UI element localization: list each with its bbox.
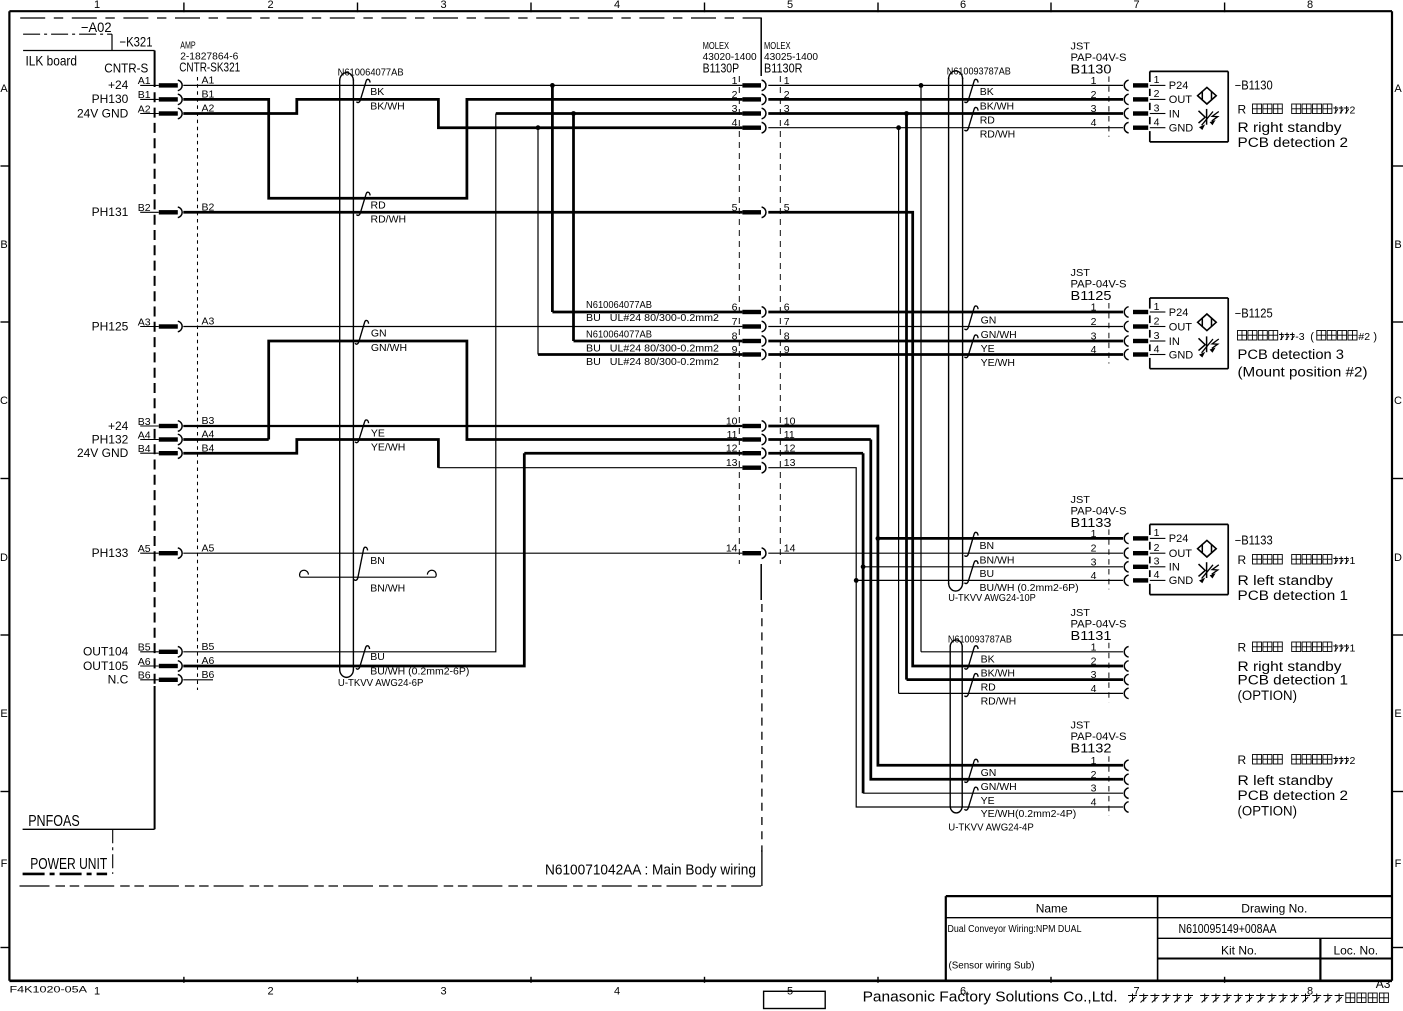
svg-text:24V GND: 24V GND — [77, 106, 129, 120]
svg-text:#2: #2 — [1358, 331, 1370, 343]
svg-text:A1: A1 — [138, 75, 151, 87]
svg-text:IN: IN — [1169, 562, 1180, 574]
svg-text:PCB detection 1: PCB detection 1 — [1238, 588, 1349, 603]
svg-text:7: 7 — [1133, 0, 1139, 11]
svg-text:OUT105: OUT105 — [83, 659, 129, 673]
svg-text:2: 2 — [1350, 755, 1356, 767]
svg-text:RD: RD — [980, 114, 996, 126]
svg-text:OUT: OUT — [1169, 321, 1193, 333]
svg-text:2: 2 — [1154, 88, 1160, 100]
svg-text:A4: A4 — [138, 429, 151, 441]
svg-text:GND: GND — [1169, 349, 1194, 361]
svg-text:3: 3 — [440, 0, 446, 11]
svg-text:PCB detection 2: PCB detection 2 — [1238, 788, 1349, 803]
svg-text:YE/WH: YE/WH — [981, 357, 1015, 369]
svg-text:B2: B2 — [138, 202, 151, 214]
svg-text:JST: JST — [1071, 607, 1091, 619]
svg-text:OUT104: OUT104 — [83, 645, 129, 659]
svg-text:JST: JST — [1071, 494, 1091, 506]
svg-text:JST: JST — [1071, 41, 1091, 53]
svg-text:F: F — [1395, 858, 1402, 870]
svg-text:B1: B1 — [138, 89, 151, 101]
svg-text:PNFOAS: PNFOAS — [28, 813, 79, 830]
svg-text:N610071042AA : Main Body wirin: N610071042AA : Main Body wiring — [545, 863, 756, 879]
svg-text:R left standby: R left standby — [1238, 773, 1334, 788]
svg-text:PCB detection 1: PCB detection 1 — [1238, 673, 1349, 688]
svg-text:C: C — [1394, 395, 1402, 407]
svg-text:−A02: −A02 — [81, 20, 112, 35]
svg-text:B1130P: B1130P — [703, 62, 740, 76]
svg-text:N610095149+008AA: N610095149+008AA — [1179, 922, 1278, 936]
svg-text:Name: Name — [1036, 902, 1068, 916]
svg-text:Drawing No.: Drawing No. — [1241, 902, 1307, 916]
svg-text:D: D — [0, 552, 8, 564]
svg-text:GN/WH: GN/WH — [371, 342, 407, 354]
svg-text:POWER UNIT: POWER UNIT — [30, 856, 107, 873]
svg-text:BU/WH (0.2mm2-6P): BU/WH (0.2mm2-6P) — [370, 665, 469, 677]
svg-text:(: ( — [1310, 331, 1314, 343]
svg-text:N610093787AB: N610093787AB — [947, 66, 1011, 78]
svg-text:A2: A2 — [138, 103, 151, 115]
svg-text:RD: RD — [371, 199, 387, 211]
svg-text:BK/WH: BK/WH — [370, 100, 404, 112]
svg-text:A: A — [0, 83, 8, 95]
svg-text:1: 1 — [1350, 555, 1356, 567]
svg-text:B: B — [1394, 239, 1401, 251]
svg-text:R: R — [1238, 103, 1247, 117]
svg-text:A5: A5 — [138, 543, 151, 555]
svg-text:Panasonic Factory Solutions Co: Panasonic Factory Solutions Co.,Ltd. — [863, 990, 1118, 1006]
svg-text:IN: IN — [1169, 108, 1180, 120]
svg-text:BN: BN — [980, 540, 995, 552]
svg-text:PH130: PH130 — [92, 92, 129, 106]
svg-text:2: 2 — [1154, 542, 1160, 554]
svg-text:B6: B6 — [138, 670, 151, 682]
svg-text:(OPTION): (OPTION) — [1238, 804, 1298, 819]
svg-text:R: R — [1238, 753, 1247, 767]
svg-text:BK: BK — [370, 86, 384, 98]
svg-text:2: 2 — [267, 986, 273, 998]
svg-text:OUT: OUT — [1169, 94, 1193, 106]
svg-text:YE: YE — [371, 427, 385, 439]
svg-text:1: 1 — [1154, 74, 1160, 86]
svg-text:B1130R: B1130R — [764, 62, 803, 76]
svg-text:YE: YE — [981, 343, 995, 355]
svg-text:RD/WH: RD/WH — [980, 129, 1016, 141]
svg-text:JST: JST — [1071, 267, 1091, 279]
svg-text:-3: -3 — [1295, 331, 1304, 343]
svg-text:A1: A1 — [202, 75, 215, 87]
svg-text:PCB detection 2: PCB detection 2 — [1238, 135, 1349, 150]
svg-text:Kit No.: Kit No. — [1221, 944, 1257, 958]
svg-text:): ) — [1373, 331, 1377, 343]
svg-text:ILK board: ILK board — [26, 53, 78, 69]
svg-text:2: 2 — [267, 0, 273, 11]
svg-text:(Mount position #2): (Mount position #2) — [1238, 365, 1368, 380]
svg-text:N610064077AB: N610064077AB — [586, 328, 652, 340]
svg-text:D: D — [1394, 552, 1402, 564]
svg-text:B4: B4 — [138, 443, 151, 455]
svg-text:BN/WH: BN/WH — [370, 583, 405, 595]
svg-text:U-TKVV AWG24-10P: U-TKVV AWG24-10P — [948, 592, 1036, 604]
svg-text:A3: A3 — [1376, 977, 1391, 991]
svg-text:A3: A3 — [138, 316, 151, 328]
svg-text:1: 1 — [94, 986, 100, 998]
svg-text:1: 1 — [1154, 301, 1160, 313]
svg-text:GN: GN — [981, 315, 997, 327]
svg-text:E: E — [1394, 708, 1401, 720]
svg-text:B: B — [0, 239, 7, 251]
svg-text:R left standby: R left standby — [1238, 573, 1334, 588]
svg-text:U-TKVV AWG24-6P: U-TKVV AWG24-6P — [338, 677, 424, 689]
svg-text:OUT: OUT — [1169, 548, 1193, 560]
svg-text:A: A — [1394, 83, 1402, 95]
svg-text:1: 1 — [1154, 527, 1160, 539]
svg-text:3: 3 — [1154, 556, 1160, 568]
svg-text:BK: BK — [980, 86, 994, 98]
svg-text:R: R — [1238, 641, 1247, 655]
svg-text:24V GND: 24V GND — [77, 446, 129, 460]
svg-text:CNTR-S: CNTR-S — [104, 61, 148, 76]
svg-text:−B1130: −B1130 — [1235, 79, 1273, 93]
svg-text:BU: BU — [980, 568, 995, 580]
svg-text:BU UL#24 80/300-0.2mm2: BU UL#24 80/300-0.2mm2 — [586, 356, 719, 368]
svg-text:F: F — [1, 858, 8, 870]
svg-text:BN: BN — [370, 555, 385, 567]
svg-text:1: 1 — [94, 0, 100, 11]
svg-text:IN: IN — [1169, 336, 1180, 348]
svg-text:2: 2 — [1350, 105, 1356, 117]
svg-text:4: 4 — [614, 986, 620, 998]
svg-text:4: 4 — [1154, 117, 1160, 129]
svg-text:BU UL#24 80/300-0.2mm2: BU UL#24 80/300-0.2mm2 — [586, 312, 719, 324]
svg-text:JST: JST — [1071, 720, 1091, 732]
svg-text:RD/WH: RD/WH — [981, 695, 1017, 707]
svg-text:BK/WH: BK/WH — [980, 100, 1014, 112]
svg-text:GN/WH: GN/WH — [981, 329, 1017, 341]
svg-text:E: E — [0, 708, 7, 720]
svg-text:N610064077AB: N610064077AB — [338, 67, 404, 79]
svg-text:2: 2 — [1154, 315, 1160, 327]
svg-text:3: 3 — [440, 986, 446, 998]
svg-text:−B1125: −B1125 — [1235, 307, 1273, 321]
svg-text:B5: B5 — [138, 642, 151, 654]
svg-text:BK: BK — [981, 653, 995, 665]
svg-text:U-TKVV AWG24-4P: U-TKVV AWG24-4P — [948, 821, 1034, 833]
svg-text:GN: GN — [981, 767, 997, 779]
svg-text:BN/WH: BN/WH — [980, 555, 1015, 567]
svg-text:B1132: B1132 — [1071, 742, 1112, 756]
svg-text:−B1133: −B1133 — [1235, 534, 1273, 548]
svg-text:B3: B3 — [138, 416, 151, 428]
svg-text:6: 6 — [960, 0, 966, 11]
svg-text:BK/WH: BK/WH — [981, 668, 1015, 680]
svg-text:GN: GN — [371, 328, 387, 340]
svg-text:Loc. No.: Loc. No. — [1333, 944, 1378, 958]
svg-text:PH131: PH131 — [92, 205, 129, 219]
svg-text:−K321: −K321 — [120, 35, 153, 50]
svg-text:PH133: PH133 — [92, 546, 129, 560]
svg-text:RD: RD — [981, 681, 997, 693]
svg-text:P24: P24 — [1169, 533, 1189, 545]
svg-text:YE/WH: YE/WH — [371, 441, 405, 453]
svg-text:P24: P24 — [1169, 80, 1189, 92]
svg-text:YE/WH(0.2mm2-4P): YE/WH(0.2mm2-4P) — [981, 808, 1077, 820]
svg-text:8: 8 — [1307, 0, 1313, 11]
svg-text:BU: BU — [370, 651, 385, 663]
svg-text:PH132: PH132 — [92, 432, 129, 446]
svg-text:3: 3 — [1154, 330, 1160, 342]
svg-text:GND: GND — [1169, 575, 1194, 587]
svg-text:F4K1020-05A: F4K1020-05A — [10, 985, 88, 996]
svg-text:+24: +24 — [108, 419, 129, 433]
svg-text:BU UL#24 80/300-0.2mm2: BU UL#24 80/300-0.2mm2 — [586, 343, 719, 355]
svg-text:P24: P24 — [1169, 307, 1189, 319]
svg-text:PH125: PH125 — [92, 319, 129, 333]
svg-text:GND: GND — [1169, 123, 1194, 135]
svg-text:A6: A6 — [138, 656, 151, 668]
svg-text:5: 5 — [787, 0, 793, 11]
svg-text:RD/WH: RD/WH — [371, 213, 407, 225]
svg-text:1: 1 — [1350, 643, 1356, 655]
svg-text:R: R — [1238, 553, 1247, 567]
svg-text:CNTR-SK321: CNTR-SK321 — [179, 60, 240, 75]
svg-text:C: C — [0, 395, 8, 407]
svg-text:4: 4 — [1154, 343, 1160, 355]
svg-text:N610093787AB: N610093787AB — [948, 633, 1012, 645]
svg-text:N610064077AB: N610064077AB — [586, 299, 652, 311]
svg-text:PCB detection 3: PCB detection 3 — [1238, 347, 1345, 362]
svg-text:3: 3 — [1154, 102, 1160, 114]
svg-text:4: 4 — [1154, 569, 1160, 581]
svg-text:YE: YE — [981, 795, 995, 807]
svg-text:(Sensor wiring Sub): (Sensor wiring Sub) — [949, 960, 1035, 971]
svg-text:N.C: N.C — [108, 673, 129, 687]
svg-text:Dual Conveyor Wiring:NPM DUAL: Dual Conveyor Wiring:NPM DUAL — [948, 924, 1082, 935]
svg-text:+24: +24 — [108, 78, 129, 92]
svg-text:GN/WH: GN/WH — [981, 781, 1017, 793]
svg-text:4: 4 — [614, 0, 620, 11]
svg-text:R right standby: R right standby — [1238, 120, 1342, 135]
svg-text:(OPTION): (OPTION) — [1238, 688, 1298, 703]
